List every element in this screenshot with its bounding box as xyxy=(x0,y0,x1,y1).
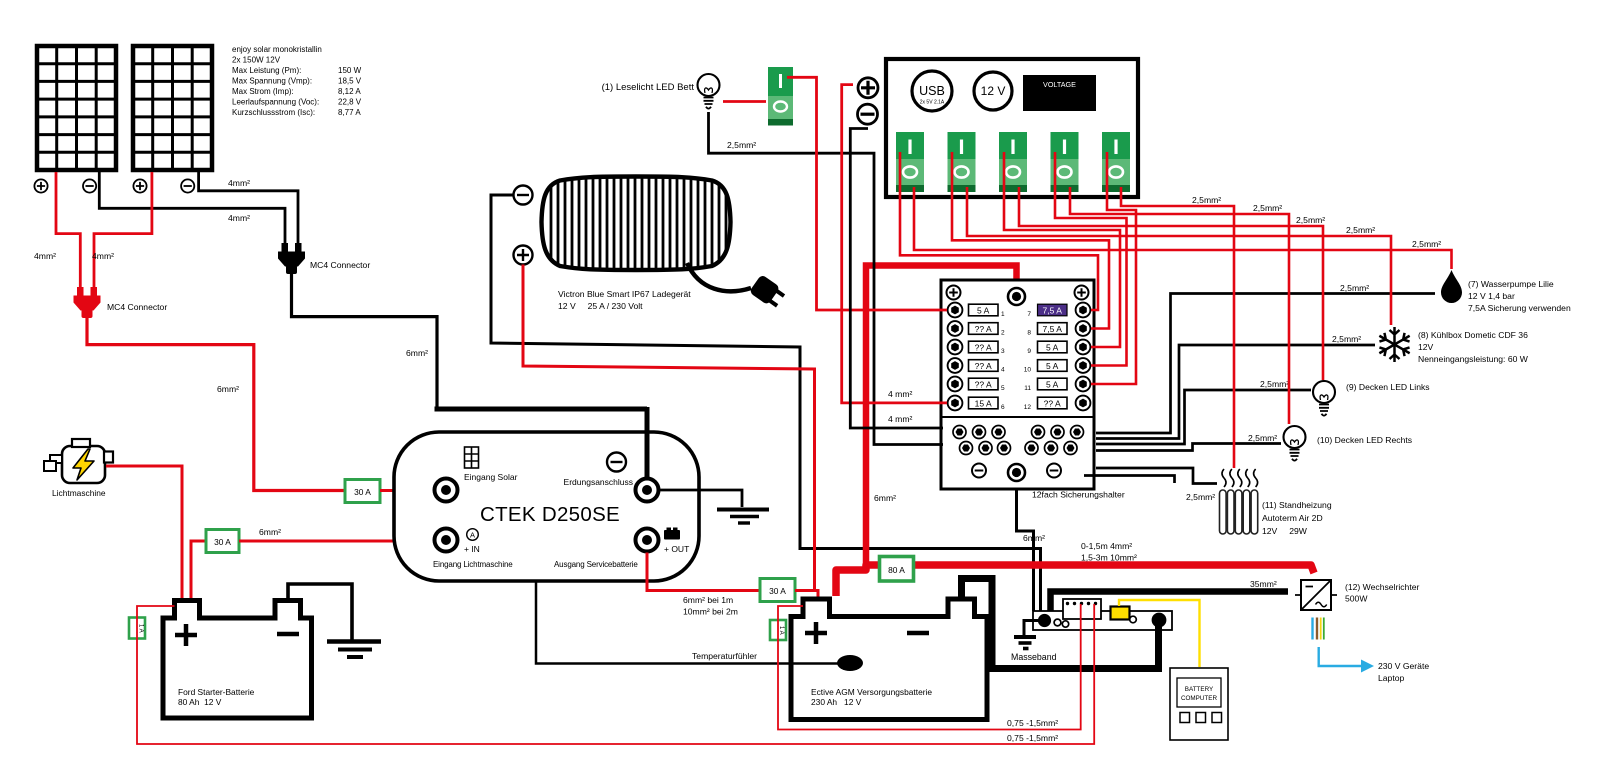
wire solar minus MC4 to CTEK ground 6mm2 xyxy=(292,272,438,407)
panel supply minus node xyxy=(858,104,878,124)
svg-text:USB: USB xyxy=(919,84,945,98)
Victron mains cable xyxy=(687,263,751,291)
svg-text:12 V 1,4 bar: 12 V 1,4 bar xyxy=(1468,291,1515,301)
fusebox plus mark left xyxy=(947,286,961,300)
svg-text:(1) Leselicht LED Bett: (1) Leselicht LED Bett xyxy=(602,82,695,93)
svg-text:30 A: 30 A xyxy=(214,537,231,547)
wire 30A solar fuse to CTEK Eingang Solar xyxy=(380,489,433,492)
Masseband small ring 3 xyxy=(1130,616,1137,623)
svg-text:4mm²: 4mm² xyxy=(228,178,250,188)
svg-text:Ective AGM Versorgungsbatterie: Ective AGM Versorgungsbatterie xyxy=(811,687,932,697)
fusebox ground stud 1 xyxy=(953,426,966,439)
wire switch S5 to heater 2,5mm2 xyxy=(1121,187,1234,468)
wire 30A fuse to AGM plus xyxy=(795,591,818,601)
switch Leselicht xyxy=(768,67,793,126)
wire starter minus to ground xyxy=(288,584,352,640)
Victron mains plug xyxy=(749,274,787,310)
svg-text:18,5 V: 18,5 V xyxy=(338,77,362,86)
wire temperature sensor xyxy=(536,581,840,664)
wire fuse 8 to switch S2 xyxy=(952,152,1109,329)
fuse 8 value 7,5 A xyxy=(1038,323,1068,335)
CTEK battery icon xyxy=(664,528,680,540)
Masseband right lug xyxy=(1152,613,1167,628)
svg-text:6mm²: 6mm² xyxy=(217,384,239,394)
temperature sensor pad xyxy=(837,655,863,671)
wire yellow to battery computer xyxy=(1119,600,1200,667)
ground symbol starter battery xyxy=(327,639,381,644)
svg-text:?? A: ?? A xyxy=(1044,399,1061,409)
starter battery minus sign xyxy=(277,632,299,637)
Victron charger body xyxy=(542,172,731,274)
fuse 1 value 5 A xyxy=(969,304,999,316)
svg-text:Kurzschlussstrom (Isc):: Kurzschlussstrom (Isc): xyxy=(232,108,315,117)
fuse 1A AGM monitor xyxy=(770,620,786,640)
svg-text:1 A: 1 A xyxy=(138,624,144,633)
fusebox plus mark right xyxy=(1075,286,1089,300)
arrow 230V output xyxy=(1319,647,1374,673)
switch S1 xyxy=(896,132,924,192)
svg-text:4 mm²: 4 mm² xyxy=(888,414,912,424)
svg-text:12V: 12V xyxy=(1418,342,1434,352)
svg-text:3: 3 xyxy=(1001,348,1005,355)
svg-text:7: 7 xyxy=(1027,311,1031,318)
wire panel plus from fuse 6 4mm2 xyxy=(842,85,947,403)
svg-text:4mm²: 4mm² xyxy=(228,213,250,223)
water pump drop icon xyxy=(1441,270,1462,303)
Victron minus terminal xyxy=(514,186,533,205)
fuse circuit 11 terminal xyxy=(1076,377,1091,392)
svg-text:10mm² bei 2m: 10mm² bei 2m xyxy=(683,607,738,617)
fuse 1A starter monitor xyxy=(129,618,145,639)
ground symbol Masseband xyxy=(1014,635,1036,639)
wire Masseband to chassis ground xyxy=(1024,621,1040,636)
CTEK terminal Eingang Solar xyxy=(435,479,458,502)
svg-text:Ford Starter-Batterie: Ford Starter-Batterie xyxy=(178,687,255,697)
CTEK solar icon xyxy=(465,447,479,468)
12V outlet xyxy=(974,72,1012,110)
svg-text:30 A: 30 A xyxy=(769,586,786,596)
wire panel minus 4mm2 xyxy=(850,129,943,429)
wire ground bus stub xyxy=(1084,476,1175,484)
switch S2 xyxy=(948,132,976,192)
fuse circuit 2 terminal xyxy=(948,321,963,336)
svg-text:2,5mm²: 2,5mm² xyxy=(727,140,756,150)
fuse circuit 4 terminal xyxy=(948,358,963,373)
fuse circuit 1 terminal xyxy=(948,303,963,318)
svg-text:(9) Decken LED Links: (9) Decken LED Links xyxy=(1346,382,1430,392)
svg-text:2x 5V 2.1A: 2x 5V 2.1A xyxy=(920,100,945,106)
fusebox ground stud 8 xyxy=(979,442,992,455)
svg-text:Max Leistung (Pm):: Max Leistung (Pm): xyxy=(232,66,301,75)
fuse 9 value 5 A xyxy=(1038,341,1068,353)
Masseband left lug xyxy=(1038,614,1051,627)
svg-text:80 A: 80 A xyxy=(888,565,905,575)
svg-text:5 A: 5 A xyxy=(1046,380,1059,390)
fusebox ground stud 10 xyxy=(1025,442,1038,455)
svg-text:0,75 -1,5mm²: 0,75 -1,5mm² xyxy=(1007,733,1058,743)
fusebox minus mark right xyxy=(1047,464,1061,478)
svg-text:Max Spannung (Vmp):: Max Spannung (Vmp): xyxy=(232,77,312,86)
fuse 10 value 5 A xyxy=(1038,360,1068,372)
lamp LED links icon xyxy=(1313,381,1335,416)
wire fuse 11 to switch S5 xyxy=(1091,152,1136,384)
lamp LED rechts icon xyxy=(1284,426,1306,461)
fridge snowflake icon xyxy=(1377,327,1412,362)
MC4 connector black xyxy=(278,243,305,274)
fuse 11 value 5 A xyxy=(1038,378,1068,390)
switch S5 xyxy=(1102,132,1130,192)
fuse circuit 6 terminal xyxy=(948,396,963,411)
fusebox ground stud 9 xyxy=(998,442,1011,455)
fuse box 12fach Sicherungshalter xyxy=(941,280,1094,489)
svg-text:7,5A Sicherung verwenden: 7,5A Sicherung verwenden xyxy=(1468,303,1571,313)
svg-text:0,75 -1,5mm²: 0,75 -1,5mm² xyxy=(1007,718,1058,728)
svg-text:Autoterm Air 2D: Autoterm Air 2D xyxy=(1262,513,1323,523)
svg-text:2,5mm²: 2,5mm² xyxy=(1260,379,1289,389)
wire AGM monitor 0,75mm2 xyxy=(778,604,1081,730)
svg-text:2,5mm²: 2,5mm² xyxy=(1253,203,1282,213)
svg-text:80 Ah 12 V: 80 Ah 12 V xyxy=(178,697,222,707)
svg-text:5 A: 5 A xyxy=(1046,361,1059,371)
wire starter battery plus to 30A fuse to CTEK IN xyxy=(191,541,206,599)
fuse 4 value ?? A xyxy=(969,360,999,372)
wire switch S3 to LED links 2,5mm2 xyxy=(1019,187,1323,380)
control panel box xyxy=(886,59,1138,197)
svg-text:CTEK D250SE: CTEK D250SE xyxy=(480,503,620,526)
fuse 12 value ?? A xyxy=(1038,397,1068,409)
svg-text:500W: 500W xyxy=(1345,594,1368,604)
panel supply plus node xyxy=(858,78,878,98)
wire PV1 minus to MC4 black xyxy=(99,172,285,244)
solar spec text xyxy=(232,45,362,117)
svg-text:12fach Sicherungshalter: 12fach Sicherungshalter xyxy=(1032,490,1125,500)
svg-text:?? A: ?? A xyxy=(975,380,992,390)
Masseband small ring 1 xyxy=(1054,619,1061,626)
svg-text:A: A xyxy=(470,531,475,540)
fuse 80A xyxy=(880,557,914,582)
svg-text:2: 2 xyxy=(1001,330,1005,337)
wire fuse 9 to switch S3 xyxy=(1004,152,1120,347)
svg-text:15 A: 15 A xyxy=(975,399,992,409)
svg-text:6mm² bei 1m: 6mm² bei 1m xyxy=(683,595,733,605)
CTEK D250SE body xyxy=(394,432,699,581)
wire PV1 plus to MC4 red xyxy=(56,172,80,288)
svg-text:2,5mm²: 2,5mm² xyxy=(1340,283,1369,293)
svg-text:MC4 Connector: MC4 Connector xyxy=(107,302,167,312)
wire Victron plus to battery junction xyxy=(523,265,815,591)
svg-text:(11) Standheizung: (11) Standheizung xyxy=(1262,500,1332,510)
wire CTEK OUT to 30A fuse xyxy=(647,553,760,591)
wire switch Leselicht to fuse 1 xyxy=(787,77,947,310)
wire Masseband to inverter 35mm2 xyxy=(1051,592,1289,612)
solar panel PV2 xyxy=(133,46,212,170)
alternator Lichtmaschine xyxy=(44,439,113,483)
fuse 30A alternator xyxy=(206,530,239,553)
fuse circuit 12 terminal xyxy=(1076,396,1091,411)
svg-text:BATTERY: BATTERY xyxy=(1185,686,1214,693)
wire LED rechts minus return xyxy=(1096,444,1281,451)
svg-text:8,12 A: 8,12 A xyxy=(338,87,361,96)
svg-text:11: 11 xyxy=(1024,385,1031,392)
fuse circuit 8 terminal xyxy=(1076,321,1091,336)
wire pump minus return xyxy=(1096,294,1435,434)
svg-text:8: 8 xyxy=(1027,330,1031,337)
wire PV2 minus to MC4 black xyxy=(199,172,298,244)
wire fuse 7 to switch S1 xyxy=(900,152,1098,310)
svg-text:22,8 V: 22,8 V xyxy=(338,98,362,107)
fuse circuit 3 terminal xyxy=(948,340,963,355)
svg-text:4mm²: 4mm² xyxy=(34,251,56,261)
fusebox minus mark left xyxy=(972,464,986,478)
fusebox plus input terminal xyxy=(1008,288,1025,305)
svg-text:?? A: ?? A xyxy=(975,361,992,371)
Victron plus terminal xyxy=(514,246,533,265)
svg-text:6mm²: 6mm² xyxy=(1023,533,1045,543)
svg-text:MC4 Connector: MC4 Connector xyxy=(310,260,370,270)
wire PV2 plus to MC4 red xyxy=(94,172,152,288)
AGM battery minus sign xyxy=(907,631,929,636)
wire fridge minus return xyxy=(1096,345,1375,439)
switch S4 xyxy=(1051,132,1079,192)
svg-text:4 mm²: 4 mm² xyxy=(888,389,912,399)
PV1 minus terminal xyxy=(83,179,96,192)
svg-text:2,5mm²: 2,5mm² xyxy=(1412,239,1441,249)
svg-text:35mm²: 35mm² xyxy=(1250,579,1277,589)
fuse 2 value ?? A xyxy=(969,323,999,335)
wire battery plus main feed thick red xyxy=(836,565,1314,596)
svg-text:2,5mm²: 2,5mm² xyxy=(1296,215,1325,225)
svg-text:230 V Geräte: 230 V Geräte xyxy=(1378,661,1429,671)
svg-text:12 V 25 A / 230 Volt: 12 V 25 A / 230 Volt xyxy=(558,301,643,311)
fuse 7 value 7,5 A xyxy=(1038,304,1068,316)
svg-text:(7) Wasserpumpe Lilie: (7) Wasserpumpe Lilie xyxy=(1468,279,1554,289)
svg-text:7,5 A: 7,5 A xyxy=(1043,324,1063,334)
svg-text:12: 12 xyxy=(1024,404,1032,411)
wire AGM minus to Masseband thick xyxy=(962,579,1159,669)
svg-text:Laptop: Laptop xyxy=(1378,673,1405,683)
wire lamp to switch xyxy=(723,100,766,103)
svg-text:10: 10 xyxy=(1024,367,1032,374)
fuse 30A solar xyxy=(345,480,380,503)
svg-text:2,5mm²: 2,5mm² xyxy=(1186,492,1215,502)
fusebox ground stud 5 xyxy=(1051,426,1064,439)
svg-text:2x 150W 12V: 2x 150W 12V xyxy=(232,56,281,65)
svg-text:?? A: ?? A xyxy=(975,343,992,353)
fuse circuit 7 terminal xyxy=(1076,303,1091,318)
CTEK terminal Ausgang Servicebatterie xyxy=(636,529,659,552)
svg-text:12 V: 12 V xyxy=(981,84,1006,98)
fuse 5 value ?? A xyxy=(969,378,999,390)
svg-text:5 A: 5 A xyxy=(1046,343,1059,353)
svg-text:2,5mm²: 2,5mm² xyxy=(1248,433,1277,443)
svg-text:230 Ah 12 V: 230 Ah 12 V xyxy=(811,697,862,707)
Ective AGM battery xyxy=(791,599,987,720)
svg-text:Leerlaufspannung (Voc):: Leerlaufspannung (Voc): xyxy=(232,98,319,107)
svg-text:2,5mm²: 2,5mm² xyxy=(1192,195,1221,205)
switch S3 xyxy=(999,132,1027,192)
fusebox ground stud 11 xyxy=(1045,442,1058,455)
svg-text:5 A: 5 A xyxy=(977,306,990,316)
svg-text:6mm²: 6mm² xyxy=(874,493,896,503)
svg-text:2,5mm²: 2,5mm² xyxy=(1346,225,1375,235)
MC4 connector red xyxy=(74,287,101,318)
wire switch S2 to fridge 2,5mm2 xyxy=(967,187,1391,325)
svg-text:Victron Blue Smart IP67 Ladege: Victron Blue Smart IP67 Ladegerät xyxy=(558,289,691,299)
svg-text:150 W: 150 W xyxy=(338,66,362,75)
svg-text:(10) Decken LED Rechts: (10) Decken LED Rechts xyxy=(1317,435,1412,445)
wire heater minus return xyxy=(1096,468,1217,484)
svg-text:(8) Kühlbox Dometic CDF 36: (8) Kühlbox Dometic CDF 36 xyxy=(1418,330,1528,340)
wire switch S4 to LED rechts 2,5mm2 xyxy=(1070,187,1289,424)
fusebox ground stud 4 xyxy=(1032,426,1045,439)
svg-text:4: 4 xyxy=(1001,367,1005,374)
fuse 3 value ?? A xyxy=(969,341,999,353)
svg-text:(12) Wechselrichter: (12) Wechselrichter xyxy=(1345,582,1419,592)
fuse 30A service output xyxy=(760,579,795,602)
CTEK terminal Erdungsanschluss xyxy=(636,479,659,502)
AGM battery plus sign xyxy=(805,622,827,644)
wire Victron minus to Masseband xyxy=(491,195,1041,611)
fusebox minus output terminal xyxy=(1008,464,1025,481)
svg-text:1: 1 xyxy=(1001,311,1005,318)
fusebox ground stud 6 xyxy=(1071,426,1084,439)
svg-text:0-1,5m 4mm²: 0-1,5m 4mm² xyxy=(1081,541,1132,551)
svg-text:6mm²: 6mm² xyxy=(259,527,281,537)
svg-text:Eingang Solar: Eingang Solar xyxy=(464,472,518,482)
svg-text:VOLTAGE: VOLTAGE xyxy=(1043,80,1076,89)
fusebox ground stud 2 xyxy=(973,426,986,439)
starter battery plus sign xyxy=(175,624,197,646)
svg-text:enjoy solar monokristallin: enjoy solar monokristallin xyxy=(232,45,322,54)
svg-text:7,5 A: 7,5 A xyxy=(1043,306,1063,316)
shunt block xyxy=(1063,599,1101,619)
battery computer xyxy=(1170,668,1228,740)
Ford starter battery xyxy=(163,601,312,719)
svg-text:1,5-3m 10mm²: 1,5-3m 10mm² xyxy=(1081,553,1137,563)
svg-text:Masseband: Masseband xyxy=(1011,652,1057,662)
CTEK ground symbol icon xyxy=(607,453,626,472)
wire switch S1 to pump 2,5mm2 xyxy=(914,187,1452,269)
wire alternator to starter battery plus xyxy=(106,466,182,599)
wire solar plus MC4 to 30A fuse 6mm2 xyxy=(87,314,345,491)
svg-text:COMPUTER: COMPUTER xyxy=(1181,695,1217,702)
svg-text:12V 29W: 12V 29W xyxy=(1262,526,1308,536)
fuse yellow Masseband xyxy=(1111,607,1130,620)
fusebox ground stud 12 xyxy=(1064,442,1077,455)
PV2 plus terminal xyxy=(133,179,146,192)
wire 30A fuse to CTEK Eingang Lichtmaschine xyxy=(239,540,433,543)
svg-text:8,77 A: 8,77 A xyxy=(338,108,361,117)
svg-text:Temperaturfühler: Temperaturfühler xyxy=(692,651,757,661)
solar panel PV1 xyxy=(37,46,116,170)
inverter Wechselrichter xyxy=(1295,580,1337,610)
fuse circuit 5 terminal xyxy=(948,377,963,392)
heater coils icon xyxy=(1220,469,1258,534)
fusebox ground stud 3 xyxy=(992,426,1005,439)
PV2 minus terminal xyxy=(181,179,194,192)
svg-text:Max Strom (Imp):: Max Strom (Imp): xyxy=(232,87,294,96)
svg-text:+ IN: + IN xyxy=(464,544,480,554)
svg-text:Erdungsanschluss: Erdungsanschluss xyxy=(564,477,633,487)
wire starter monitor 0,75mm2 xyxy=(137,604,1094,744)
wire solar minus into Erdungsanschluss xyxy=(645,407,650,478)
svg-text:Ausgang Servicebatterie: Ausgang Servicebatterie xyxy=(554,560,638,569)
svg-text:6mm²: 6mm² xyxy=(406,348,428,358)
svg-text:9: 9 xyxy=(1027,348,1031,355)
svg-text:2,5mm²: 2,5mm² xyxy=(1332,334,1361,344)
fuse 6 value 15 A xyxy=(969,397,999,409)
svg-text:30 A: 30 A xyxy=(354,487,371,497)
ground symbol CTEK xyxy=(717,508,769,512)
svg-text:Nenneingangsleistung: 60 W: Nenneingangsleistung: 60 W xyxy=(1418,354,1529,364)
wire fuse 10 to switch S4 xyxy=(1055,152,1127,366)
wire lamp minus 2,5mm2 xyxy=(709,112,944,445)
svg-text:+ OUT: + OUT xyxy=(664,544,689,554)
inverter AC cable xyxy=(1313,618,1324,640)
wire fusebox minus to Masseband 6mm2 xyxy=(1017,481,1034,611)
Masseband bus bar xyxy=(1033,611,1172,630)
svg-text:Lichtmaschine: Lichtmaschine xyxy=(52,488,106,498)
wire LED links minus return xyxy=(1096,390,1311,444)
wire Erdungsanschluss to chassis ground xyxy=(659,490,743,507)
voltage display xyxy=(1023,75,1096,111)
svg-text:5: 5 xyxy=(1001,385,1005,392)
svg-text:6: 6 xyxy=(1001,404,1005,411)
PV1 plus terminal xyxy=(34,179,47,192)
shunt pins xyxy=(1066,602,1097,605)
fusebox ground stud 7 xyxy=(960,442,973,455)
fuse circuit 9 terminal xyxy=(1076,340,1091,355)
svg-text:4mm²: 4mm² xyxy=(92,251,114,261)
svg-text:Eingang Lichtmaschine: Eingang Lichtmaschine xyxy=(433,560,513,569)
lamp bulb Leselicht xyxy=(698,74,720,109)
Masseband small ring 2 xyxy=(1062,621,1068,627)
fuse circuit 10 terminal xyxy=(1076,358,1091,373)
wire main feed to fuse box plus xyxy=(866,266,1017,569)
CTEK terminal Eingang Lichtmaschine xyxy=(435,529,458,552)
svg-text:?? A: ?? A xyxy=(975,324,992,334)
CTEK A-circle icon xyxy=(467,529,479,541)
USB outlet xyxy=(912,71,952,111)
